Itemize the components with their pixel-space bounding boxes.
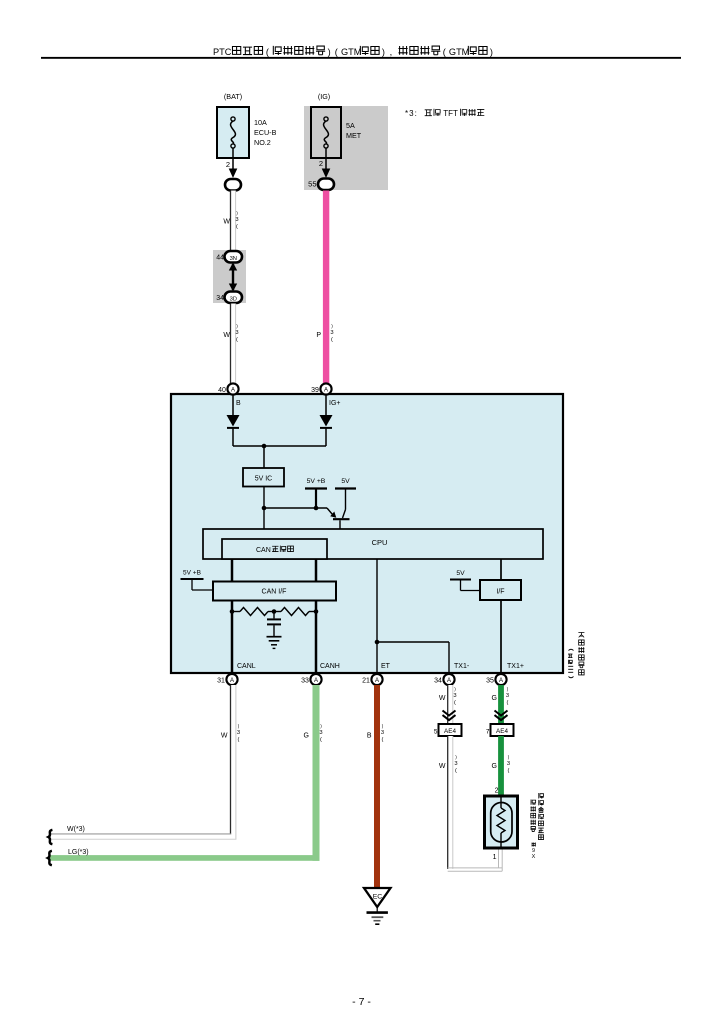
svg-text:PTC: PTC [213, 47, 232, 57]
svg-text:3: 3 [506, 693, 509, 699]
svg-text:31: 31 [217, 678, 225, 685]
svg-text:(: ( [266, 47, 269, 57]
svg-text:3: 3 [381, 730, 384, 736]
svg-text:3: 3 [237, 730, 240, 736]
svg-text:A: A [230, 678, 234, 684]
svg-text:33: 33 [301, 678, 309, 685]
svg-text:EC: EC [373, 894, 383, 901]
svg-text:,: , [390, 47, 393, 57]
svg-text:(: ( [507, 700, 509, 706]
svg-text:IG+: IG+ [329, 400, 340, 407]
svg-text:5: 5 [434, 729, 438, 736]
svg-text:W: W [223, 219, 230, 226]
svg-text:55: 55 [308, 180, 316, 189]
svg-text:5V: 5V [341, 478, 350, 485]
svg-text:A: A [231, 387, 235, 393]
svg-text:G: G [492, 763, 497, 770]
svg-text:ET: ET [381, 663, 391, 670]
svg-text:(: ( [238, 737, 240, 743]
svg-text:W: W [221, 733, 228, 740]
svg-text:MET: MET [346, 131, 362, 140]
svg-text:B: B [236, 400, 241, 407]
svg-text:TX1-: TX1- [454, 663, 470, 670]
svg-text:34: 34 [216, 295, 224, 302]
svg-text:5A: 5A [346, 121, 355, 130]
svg-text:P: P [316, 332, 321, 339]
svg-text:W: W [439, 695, 446, 702]
svg-text:LG(*3): LG(*3) [68, 849, 89, 856]
svg-text:10A: 10A [254, 118, 267, 127]
svg-text:(: ( [508, 768, 510, 774]
svg-text:): ) [382, 47, 385, 57]
svg-text:1: 1 [493, 854, 497, 861]
svg-text:(: ( [443, 47, 446, 57]
svg-text:AE4: AE4 [496, 728, 508, 735]
svg-text:CANL: CANL [237, 663, 256, 670]
svg-text:X: X [532, 854, 536, 860]
svg-text:A: A [375, 678, 379, 684]
svg-text:2: 2 [226, 160, 230, 169]
svg-text:TX1+: TX1+ [507, 663, 524, 670]
svg-text:(: ( [382, 737, 384, 743]
svg-text:- 7 -: - 7 - [352, 996, 371, 1008]
svg-text:B: B [367, 733, 372, 740]
svg-text:40: 40 [218, 387, 226, 394]
svg-text:(: ( [236, 337, 238, 343]
svg-text:(: ( [320, 737, 322, 743]
svg-text:I/F: I/F [496, 589, 504, 596]
svg-text:A: A [499, 678, 503, 684]
svg-text:GTM: GTM [449, 47, 469, 57]
svg-text:TFT: TFT [443, 109, 458, 118]
svg-text:W: W [439, 763, 446, 770]
svg-text:34: 34 [434, 678, 442, 685]
svg-text:3: 3 [453, 693, 456, 699]
svg-text:CANH: CANH [320, 663, 340, 670]
svg-text:*3:: *3: [405, 109, 418, 118]
svg-text:2: 2 [319, 159, 323, 168]
svg-text:CPU: CPU [372, 538, 388, 547]
svg-text:(: ( [236, 224, 238, 230]
svg-text:CAN: CAN [256, 547, 271, 554]
svg-text:): ) [328, 47, 331, 57]
svg-text:(BAT): (BAT) [224, 92, 242, 101]
svg-text:(IG): (IG) [318, 92, 330, 101]
svg-text:ECU-B: ECU-B [254, 128, 277, 137]
svg-text:5V: 5V [456, 570, 465, 577]
svg-text:35: 35 [486, 678, 494, 685]
svg-text:(: ( [454, 700, 456, 706]
svg-text:G: G [304, 733, 309, 740]
svg-text:GTM: GTM [341, 47, 361, 57]
svg-text:44: 44 [216, 255, 224, 262]
svg-text:AE4: AE4 [444, 728, 456, 735]
svg-text:21: 21 [362, 678, 370, 685]
svg-text:3: 3 [235, 217, 238, 223]
svg-text:7: 7 [486, 729, 490, 736]
svg-text:3: 3 [319, 730, 322, 736]
svg-text:39: 39 [311, 387, 319, 394]
svg-text:2: 2 [495, 788, 499, 795]
svg-text:A: A [324, 387, 328, 393]
svg-text:): ) [490, 47, 493, 57]
svg-text:G: G [492, 695, 497, 702]
svg-text:3: 3 [330, 330, 333, 336]
svg-text:5V IC: 5V IC [255, 476, 273, 483]
svg-text:3: 3 [235, 330, 238, 336]
svg-text:(: ( [455, 768, 457, 774]
svg-text:W: W [223, 332, 230, 339]
svg-text:(: ( [335, 47, 338, 57]
svg-text:3N: 3N [230, 256, 237, 262]
svg-text:CAN I/F: CAN I/F [262, 589, 287, 596]
svg-text:(: ( [331, 337, 333, 343]
svg-text:A: A [447, 678, 451, 684]
svg-text:W(*3): W(*3) [67, 826, 85, 833]
svg-text:NO.2: NO.2 [254, 138, 271, 147]
svg-text:3: 3 [507, 761, 510, 767]
svg-text:A: A [314, 678, 318, 684]
svg-text:3D: 3D [230, 297, 237, 303]
svg-text:5V +B: 5V +B [183, 570, 201, 577]
svg-text:5V +B: 5V +B [307, 478, 326, 485]
svg-text:3: 3 [454, 761, 457, 767]
